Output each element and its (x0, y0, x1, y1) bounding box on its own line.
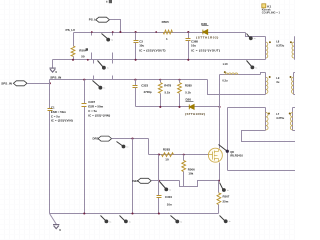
svg-text:{STTH1R02}: {STTH1R02} (185, 112, 206, 116)
svg-text:IC = {SS}*{VIN}: IC = {SS}*{VIN} (51, 118, 74, 122)
svg-text:R283: R283 (163, 147, 171, 151)
svg-text:R478: R478 (164, 83, 171, 87)
svg-text:50: 50 (81, 54, 85, 58)
svg-text:10u: 10u (191, 44, 196, 48)
svg-text:10u: 10u (139, 44, 144, 48)
svg-text:PS_LV: PS_LV (66, 28, 77, 32)
svg-text:10: 10 (165, 158, 169, 162)
svg-text:IC = {SS}*{VOUT}: IC = {SS}*{VOUT} (191, 49, 221, 53)
svg-text:R285: R285 (185, 83, 192, 87)
svg-text:ESR = 50m: ESR = 50m (88, 105, 103, 109)
svg-text:9.375u: 9.375u (276, 43, 284, 47)
svg-text:R507: R507 (223, 194, 230, 198)
svg-text:L10: L10 (223, 62, 228, 66)
svg-text:K1: K1 (267, 4, 271, 8)
svg-text:IC = {SS}*{VIN}: IC = {SS}*{VIN} (88, 113, 111, 117)
svg-text:C1: C1 (51, 105, 55, 109)
svg-text:COUPLING = 1: COUPLING = 1 (262, 11, 281, 15)
svg-text:3u: 3u (276, 80, 279, 84)
svg-text:C323: C323 (141, 83, 148, 87)
svg-text:10n: 10n (167, 202, 172, 206)
svg-text:5.1k: 5.1k (165, 90, 171, 94)
svg-text:IRLR3410: IRLR3410 (230, 154, 243, 158)
svg-text:C304: C304 (165, 195, 172, 199)
svg-text:C307: C307 (88, 100, 95, 104)
svg-text:5.1k: 5.1k (185, 91, 191, 95)
svg-text:0.3u: 0.3u (222, 78, 228, 82)
svg-text:R505: R505 (162, 20, 170, 24)
svg-text:D20: D20 (186, 97, 192, 101)
svg-text:C = 5u: C = 5u (88, 109, 97, 113)
svg-text:4700p: 4700p (144, 90, 152, 94)
svg-text:10k: 10k (188, 171, 193, 175)
svg-text:{STTH1R02}: {STTH1R02} (196, 36, 219, 40)
svg-text:3.375u: 3.375u (276, 116, 284, 120)
svg-text:IC = {SS}*{VOUT}: IC = {SS}*{VOUT} (139, 49, 166, 53)
svg-text:ESR = 50m: ESR = 50m (51, 110, 66, 114)
svg-text:SPS_IN: SPS_IN (1, 82, 12, 86)
svg-text:25m: 25m (223, 200, 229, 204)
